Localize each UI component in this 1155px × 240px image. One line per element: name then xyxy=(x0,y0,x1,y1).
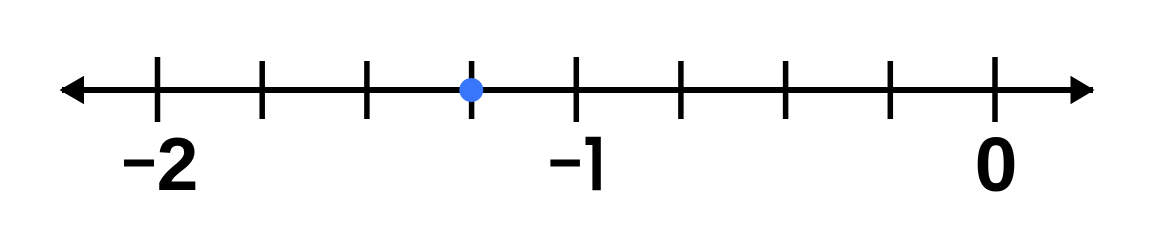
label -1 minus sign xyxy=(550,160,580,167)
major tick -2 xyxy=(155,57,161,122)
minor tick -1.5 xyxy=(364,61,370,119)
svg-text:2: 2 xyxy=(157,122,199,206)
major tick 0 xyxy=(992,57,998,122)
plotted point at -1.25 xyxy=(459,78,483,102)
label -2 minus sign xyxy=(124,160,154,167)
major tick -1 xyxy=(574,57,580,122)
minor tick -1.75 xyxy=(259,61,265,119)
svg-text:0: 0 xyxy=(975,122,1018,208)
right arrowhead xyxy=(1071,76,1095,104)
minor tick -0.75 xyxy=(678,61,684,119)
number line axis xyxy=(62,87,1093,93)
minor tick -0.5 xyxy=(783,61,789,119)
label -1 digit xyxy=(586,137,601,190)
left arrowhead xyxy=(60,76,85,104)
minor tick -0.25 xyxy=(888,61,894,119)
minor tick -1.25 xyxy=(469,61,475,119)
